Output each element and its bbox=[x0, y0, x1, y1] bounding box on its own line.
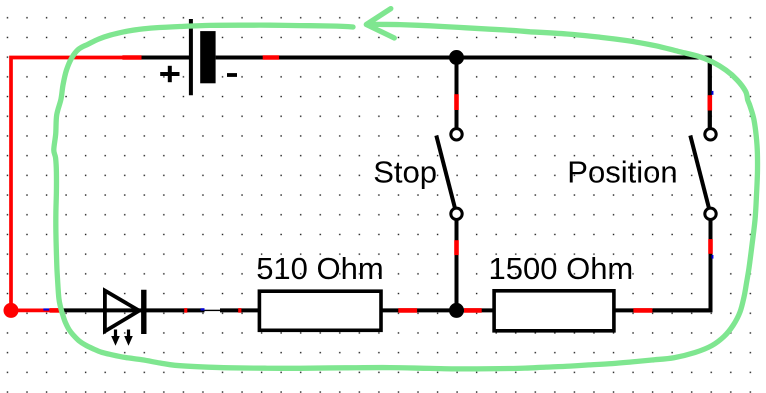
label R2 value "1500 Ohm" bbox=[489, 251, 634, 286]
current tick (red) on S1 top lead bbox=[454, 94, 459, 110]
current tick (red) on battery positive lead bbox=[122, 55, 141, 60]
wire top bus from node A to top-right corner, down to switch S2 bbox=[457, 58, 710, 128]
node B junction dot bbox=[449, 303, 464, 318]
voltage tick (blue) on LED anode lead bbox=[43, 308, 49, 310]
wire switch S1 top lead bbox=[455, 58, 459, 128]
resistor R1 510 Ohm bbox=[259, 291, 381, 330]
label switch S1 "Stop" bbox=[373, 154, 437, 189]
voltage tick (blue) on S2 top lead bbox=[712, 91, 714, 95]
wire LED anode lead (red part) bbox=[11, 309, 62, 313]
annotation green arrowhead (points left) bbox=[366, 9, 394, 38]
svg-text:510 Ohm: 510 Ohm bbox=[256, 251, 384, 286]
wire switch S1 bottom lead down to node B bbox=[455, 221, 459, 311]
label battery plus bbox=[160, 66, 179, 82]
battery B1 bbox=[191, 19, 216, 95]
current tick (red) on R2 right lead bbox=[633, 308, 652, 313]
voltage tick (blue) on S2 bottom lead bbox=[712, 255, 714, 259]
wire switch S2 bottom lead down to bottom-right corner bbox=[653, 221, 711, 311]
wire battery negative lead to top bus bbox=[216, 56, 457, 60]
current tick (red) on S2 bottom lead bbox=[708, 239, 713, 254]
current tick (red) on R1 left lead bbox=[238, 308, 241, 313]
node LED (red junction dot) bbox=[4, 303, 19, 318]
wire node B to resistor R2 bbox=[457, 308, 495, 312]
wire switch S2 top lead (below top bus corner) bbox=[708, 58, 712, 128]
wire R2 right lead to bottom-right corner bbox=[614, 308, 711, 312]
resistor R2 1500 Ohm bbox=[494, 291, 614, 331]
current tick (red) on LED cathode lead bbox=[184, 308, 187, 313]
label switch S2 "Position" bbox=[567, 154, 677, 189]
switch S1 Stop bbox=[436, 129, 462, 220]
current tick (red) on S1 bottom lead bbox=[454, 240, 459, 255]
label battery minus bbox=[227, 73, 237, 77]
current tick (red) on S2 top lead bbox=[707, 95, 712, 110]
wire LED cathode to resistor R1 bbox=[146, 308, 259, 312]
voltage tick (blue) on LED cathode lead bbox=[201, 308, 205, 310]
wire left rail (red): top-left corner from battery lead down to LED node bbox=[11, 58, 142, 311]
current tick (red) on battery negative lead bbox=[263, 55, 279, 60]
current tick (red) on R1 right lead bbox=[398, 308, 417, 313]
switch S2 Position bbox=[690, 129, 716, 220]
svg-text:Stop: Stop bbox=[373, 154, 437, 189]
svg-text:Position: Position bbox=[567, 154, 677, 189]
current tick (red) on R2 left lead bbox=[464, 308, 482, 313]
LED D1 bbox=[105, 290, 144, 346]
wire LED anode lead (black part) bbox=[62, 308, 146, 312]
wire R1 right lead to node B bbox=[381, 308, 457, 312]
wire battery positive lead (black) bbox=[140, 56, 190, 60]
current tick (red) on LED anode lead bbox=[50, 308, 62, 313]
node A junction dot bbox=[449, 50, 464, 65]
label R1 value "510 Ohm" bbox=[256, 251, 384, 286]
svg-text:1500 Ohm: 1500 Ohm bbox=[489, 251, 634, 286]
